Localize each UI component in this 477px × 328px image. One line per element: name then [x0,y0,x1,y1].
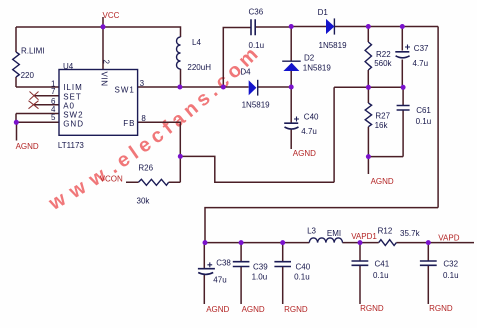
svg-text:SW2: SW2 [63,111,83,120]
svg-text:RGND: RGND [360,304,384,313]
svg-text:0.1u: 0.1u [373,271,389,280]
svg-text:D4: D4 [240,67,251,76]
svg-text:LT1173: LT1173 [58,141,84,150]
svg-text:R.LIMI: R.LIMI [21,47,45,56]
svg-text:C36: C36 [249,7,264,16]
svg-text:4.7u: 4.7u [301,127,317,136]
svg-text:1.0u: 1.0u [252,273,268,282]
svg-text:1N5819: 1N5819 [242,101,271,110]
svg-text:8: 8 [141,114,146,123]
svg-text:C40: C40 [304,112,319,121]
svg-text:30k: 30k [137,196,151,205]
svg-text:VCC: VCC [103,11,120,20]
svg-text:C61: C61 [416,106,431,115]
svg-text:VIN: VIN [100,72,109,87]
svg-text:0.1u: 0.1u [294,273,310,282]
svg-text:ILIM: ILIM [63,83,83,92]
svg-text:220uH: 220uH [187,63,211,72]
svg-text:C40: C40 [296,263,311,272]
svg-text:C39: C39 [253,263,268,272]
svg-text:1N5819: 1N5819 [303,64,332,73]
svg-text:w: w [45,188,70,215]
svg-text:0.1u: 0.1u [443,271,459,280]
svg-text:VCON: VCON [100,175,123,184]
svg-text:A0: A0 [63,102,75,111]
svg-text:220: 220 [21,71,35,80]
svg-text:16k: 16k [375,121,389,130]
svg-text:EMI: EMI [327,229,341,238]
svg-text:L3: L3 [307,227,316,236]
svg-text:D1: D1 [318,8,329,17]
svg-text:560k: 560k [374,59,392,68]
svg-text:AGND: AGND [371,177,394,186]
svg-text:R26: R26 [138,163,153,172]
svg-text:GND: GND [63,120,84,129]
svg-text:C38: C38 [216,258,231,267]
svg-text:VAPD1: VAPD1 [351,232,377,241]
svg-text:RGND: RGND [429,304,453,313]
svg-text:FB: FB [123,119,135,128]
svg-text:0.1u: 0.1u [249,41,265,50]
svg-text:D2: D2 [304,53,315,62]
svg-text:AGND: AGND [16,142,39,151]
svg-text:7: 7 [51,87,56,96]
svg-text:1N5819: 1N5819 [319,41,348,50]
svg-text:VAPD: VAPD [438,234,459,243]
svg-text:C37: C37 [414,44,429,53]
svg-text:L4: L4 [192,38,201,47]
svg-text:R12: R12 [378,227,393,236]
svg-text:0.1u: 0.1u [416,117,432,126]
svg-text:47u: 47u [213,275,226,284]
svg-text:SET: SET [63,93,82,102]
svg-text:C41: C41 [375,260,390,269]
svg-text:35.7k: 35.7k [400,229,421,238]
svg-text:U4: U4 [63,62,74,71]
svg-text:5: 5 [51,113,56,122]
svg-text:3: 3 [140,79,145,88]
svg-text:R22: R22 [376,50,391,59]
svg-text:AGND: AGND [242,305,265,314]
svg-text:2: 2 [102,60,111,65]
svg-text:4.7u: 4.7u [413,59,429,68]
svg-text:SW1: SW1 [115,85,135,94]
svg-text:AGND: AGND [293,149,316,158]
svg-text:RGND: RGND [284,305,308,314]
svg-text:C32: C32 [443,260,458,269]
svg-text:AGND: AGND [206,305,229,314]
svg-text:w: w [65,176,91,204]
svg-text:R27: R27 [375,111,390,120]
